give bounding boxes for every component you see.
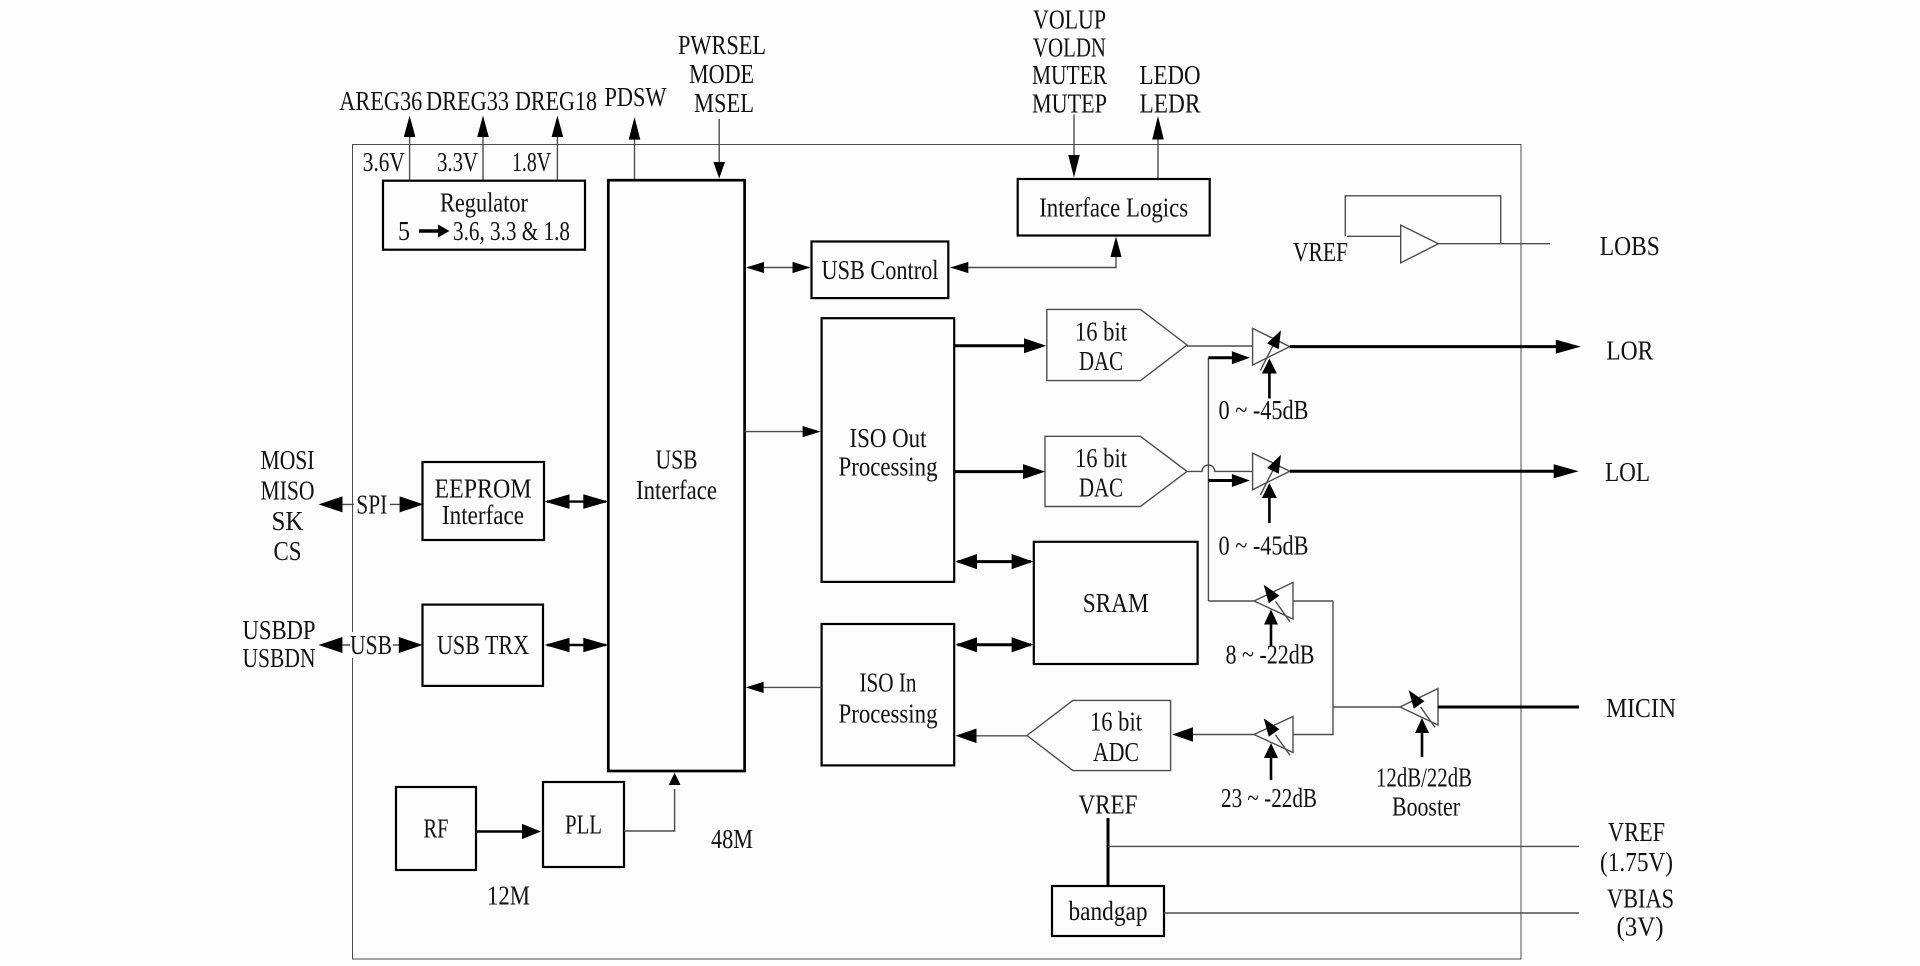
svg-text:USB Control: USB Control bbox=[822, 255, 939, 285]
svg-text:VBIAS: VBIAS bbox=[1607, 884, 1674, 914]
svg-text:USB: USB bbox=[350, 630, 392, 660]
svg-text:MOSI: MOSI bbox=[261, 445, 315, 475]
svg-text:0 ~ -45dB: 0 ~ -45dB bbox=[1219, 530, 1309, 560]
svg-text:LEDR: LEDR bbox=[1140, 88, 1201, 118]
svg-text:USB: USB bbox=[656, 445, 698, 475]
svg-text:Processing: Processing bbox=[839, 699, 938, 729]
svg-text:DREG33: DREG33 bbox=[426, 86, 509, 116]
svg-text:DREG18: DREG18 bbox=[515, 86, 597, 116]
svg-text:VREF: VREF bbox=[1293, 237, 1348, 267]
svg-text:1.8V: 1.8V bbox=[512, 147, 551, 177]
svg-text:16 bit: 16 bit bbox=[1075, 317, 1127, 347]
svg-text:bandgap: bandgap bbox=[1069, 896, 1148, 926]
svg-text:5: 5 bbox=[398, 216, 410, 246]
svg-text:VREF: VREF bbox=[1079, 790, 1138, 820]
svg-text:16 bit: 16 bit bbox=[1075, 443, 1127, 473]
svg-text:VOLUP: VOLUP bbox=[1033, 4, 1106, 34]
svg-text:3.6V: 3.6V bbox=[363, 147, 405, 177]
svg-text:PWRSEL: PWRSEL bbox=[678, 30, 766, 60]
svg-text:LOBS: LOBS bbox=[1600, 231, 1660, 261]
svg-text:SRAM: SRAM bbox=[1083, 588, 1149, 618]
svg-text:SPI: SPI bbox=[356, 489, 387, 519]
svg-text:LOL: LOL bbox=[1605, 457, 1650, 487]
svg-text:12M: 12M bbox=[487, 881, 530, 911]
svg-text:ADC: ADC bbox=[1093, 737, 1139, 767]
svg-text:DAC: DAC bbox=[1079, 473, 1123, 503]
svg-text:AREG36: AREG36 bbox=[339, 86, 422, 116]
svg-text:3.6, 3.3 & 1.8: 3.6, 3.3 & 1.8 bbox=[453, 216, 570, 246]
svg-text:12dB/22dB: 12dB/22dB bbox=[1376, 763, 1472, 793]
svg-text:Processing: Processing bbox=[839, 451, 938, 481]
svg-text:MODE: MODE bbox=[689, 59, 754, 89]
svg-text:LEDO: LEDO bbox=[1140, 60, 1201, 90]
svg-text:ISO Out: ISO Out bbox=[850, 423, 927, 453]
svg-text:USBDN: USBDN bbox=[243, 643, 316, 673]
svg-text:3.3V: 3.3V bbox=[437, 147, 478, 177]
svg-text:CS: CS bbox=[274, 536, 302, 566]
svg-text:PLL: PLL bbox=[565, 810, 602, 840]
svg-text:48M: 48M bbox=[711, 824, 753, 854]
svg-text:Interface: Interface bbox=[442, 500, 524, 530]
svg-text:Interface: Interface bbox=[636, 475, 717, 505]
svg-text:DAC: DAC bbox=[1079, 346, 1123, 376]
svg-text:(1.75V): (1.75V) bbox=[1600, 847, 1673, 877]
svg-text:MSEL: MSEL bbox=[694, 88, 754, 118]
svg-text:RF: RF bbox=[424, 814, 449, 844]
svg-text:PDSW: PDSW bbox=[605, 82, 667, 112]
svg-text:(3V): (3V) bbox=[1617, 912, 1664, 942]
svg-text:VOLDN: VOLDN bbox=[1033, 33, 1106, 63]
svg-text:Regulator: Regulator bbox=[440, 188, 528, 218]
svg-text:23 ~ -22dB: 23 ~ -22dB bbox=[1221, 783, 1317, 813]
svg-text:Interface Logics: Interface Logics bbox=[1039, 193, 1188, 223]
svg-text:SK: SK bbox=[272, 506, 304, 536]
svg-text:MICIN: MICIN bbox=[1606, 693, 1676, 723]
svg-text:MUTER: MUTER bbox=[1032, 60, 1107, 90]
svg-text:0 ~ -45dB: 0 ~ -45dB bbox=[1219, 395, 1309, 425]
svg-text:ISO In: ISO In bbox=[860, 667, 917, 697]
svg-text:MUTEP: MUTEP bbox=[1032, 88, 1107, 118]
svg-text:MISO: MISO bbox=[261, 476, 315, 506]
svg-text:LOR: LOR bbox=[1606, 336, 1653, 366]
svg-text:USBDP: USBDP bbox=[243, 615, 316, 645]
svg-text:8 ~ -22dB: 8 ~ -22dB bbox=[1226, 640, 1315, 670]
svg-text:Booster: Booster bbox=[1392, 792, 1460, 822]
svg-text:16 bit: 16 bit bbox=[1090, 707, 1142, 737]
svg-text:VREF: VREF bbox=[1608, 817, 1665, 847]
svg-text:USB TRX: USB TRX bbox=[437, 630, 529, 660]
svg-text:EEPROM: EEPROM bbox=[435, 474, 532, 504]
